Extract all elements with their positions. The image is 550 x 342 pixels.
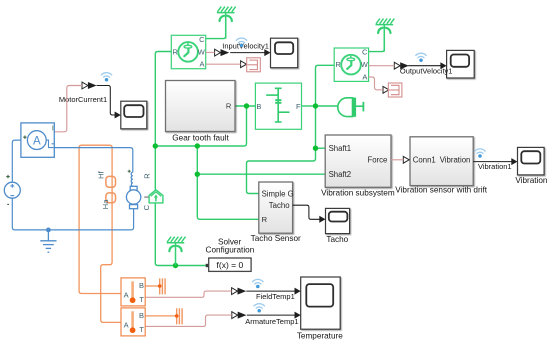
wire ammeter I to MotorCurrent1 — [54, 86, 82, 132]
svg-text:FieldTemp1: FieldTemp1 — [256, 292, 295, 301]
svg-text:Vibration sensor with drift: Vibration sensor with drift — [395, 186, 487, 195]
svg-text:f(x) = 0: f(x) = 0 — [217, 260, 244, 270]
subsystem block Vibration sensor with drift — [410, 137, 473, 186]
scope OutputVelocity — [447, 50, 475, 78]
svg-text:R: R — [335, 60, 341, 69]
junction node C — [313, 146, 318, 151]
junction node A — [244, 103, 249, 108]
svg-text:Shaft1: Shaft1 — [329, 144, 352, 153]
svg-text:Temperature: Temperature — [297, 331, 343, 340]
junction node ground blue — [46, 228, 51, 233]
rotational motion sensor 1 (input) — [171, 35, 206, 69]
junction node G — [173, 263, 178, 268]
svg-text:R: R — [173, 47, 179, 56]
wire thermo1 T to FieldTemp1 — [145, 291, 231, 297]
svg-text:W: W — [361, 60, 369, 69]
temperature sensor block field — [121, 278, 145, 306]
wireless logging icon ArmatureTemp1 — [254, 304, 264, 313]
wire sensor2 A to converter2 — [369, 77, 383, 90]
wire ammeter minus to motor plus — [54, 148, 133, 173]
arrowhead into MotorCurrent scope — [115, 112, 121, 119]
DC motor — [126, 172, 140, 208]
svg-text:Tacho: Tacho — [326, 235, 348, 244]
wire house C down to solver node — [155, 203, 206, 266]
svg-text:A: A — [124, 320, 129, 329]
source plus terminal mark — [6, 175, 9, 178]
wire thermo2 T to ArmatureTemp1 — [145, 315, 232, 326]
wire FieldTemp1 to scope — [246, 290, 295, 292]
scope Temperature — [301, 277, 341, 329]
svg-text:R: R — [226, 102, 232, 111]
svg-text:A: A — [33, 135, 41, 147]
svg-text:T: T — [139, 295, 144, 304]
wire sensor1 W out — [206, 51, 215, 53]
svg-text:R: R — [143, 173, 152, 179]
wire vertical x197 to tacho R — [197, 146, 258, 219]
wire ArmatureTemp1 to scope — [247, 314, 295, 316]
wire ground1 to sensor1 C — [206, 13, 226, 39]
DC voltage source — [4, 182, 20, 198]
wire shaft2 — [197, 173, 325, 175]
wire gearbox F to junction — [302, 105, 316, 107]
svg-text:InputVelocity1: InputVelocity1 — [222, 41, 269, 50]
svg-text:F: F — [296, 102, 301, 111]
wire shaft1 — [316, 147, 326, 149]
ammeter current sensor — [21, 123, 54, 157]
junction node E — [195, 143, 200, 148]
svg-text:Force: Force — [367, 156, 387, 165]
arrowhead into InputVelocity scope — [264, 49, 270, 56]
svg-text:R: R — [262, 215, 268, 224]
wireless logging icon MotorCurrent1 — [101, 73, 111, 82]
wire thermo1 B to thermal ref1 — [145, 285, 160, 287]
wire sensor1 R to vertical bus — [155, 52, 171, 190]
svg-text:C: C — [142, 204, 151, 210]
svg-text:T: T — [139, 325, 144, 334]
svg-text:Simple G: Simple G — [262, 189, 294, 198]
wire MotorCurrent1 to scope — [97, 86, 115, 116]
svg-text:Gear tooth fault: Gear tooth fault — [172, 133, 229, 142]
wire gear R to gearbox B — [235, 105, 255, 107]
svg-text:Shaft2: Shaft2 — [329, 170, 352, 179]
wire sensor2 W out — [369, 65, 395, 67]
svg-text:B: B — [139, 281, 144, 290]
wireless logging icon InputVelocity1 — [236, 38, 246, 47]
svg-text:MotorCurrent1: MotorCurrent1 — [59, 95, 107, 104]
wire thermal field loop — [79, 145, 121, 322]
temperature sensor block armature — [121, 308, 145, 336]
svg-text:OutputVelocity1: OutputVelocity1 — [400, 67, 453, 76]
arrowhead into Temperature scope in2 — [295, 312, 301, 319]
ammeter plus mark — [23, 136, 26, 139]
signal source arrows ArmatureTemp1 — [232, 312, 247, 319]
scope Tacho — [326, 208, 350, 233]
svg-text:Conn1: Conn1 — [413, 156, 436, 165]
junction node B — [313, 103, 318, 108]
wire ammeter plus to source — [12, 140, 21, 182]
svg-text:ArmatureTemp1: ArmatureTemp1 — [245, 317, 298, 326]
signal source arrows FieldTemp1 — [232, 288, 247, 295]
svg-text:W: W — [198, 48, 206, 57]
PS-Simulink converter 2 — [388, 83, 402, 97]
gearbox block — [255, 83, 301, 129]
wire junction to inertia — [316, 105, 339, 107]
signal source arrows OutputVelocity1 — [394, 62, 409, 69]
wire source minus to bottom bus — [12, 198, 133, 230]
mechanical rotational reference bottom — [167, 237, 186, 266]
port triangle converter2 input — [383, 86, 389, 93]
signal source arrows MotorCurrent1 — [82, 82, 97, 89]
motor R stub — [144, 196, 148, 198]
wire Force to Conn1 — [391, 159, 403, 161]
svg-text:A: A — [124, 290, 129, 299]
wire OutputVelocity1 to scope — [408, 65, 441, 67]
arrowhead into Temperature scope in1 — [295, 288, 301, 295]
source minus terminal mark — [7, 203, 9, 205]
wire Tacho to scope — [293, 205, 320, 219]
svg-text:Tacho Sensor: Tacho Sensor — [251, 234, 301, 243]
port triangle force input — [403, 156, 409, 163]
wire junction down left bus — [155, 106, 246, 146]
svg-text:Vibration: Vibration — [440, 156, 471, 165]
arrowhead into OutputVelocity scope — [440, 62, 446, 69]
svg-text:Hf: Hf — [96, 170, 105, 178]
wire thermo2 B to thermal ref2 — [145, 315, 177, 317]
friction housing element — [149, 190, 163, 203]
electrical ground — [40, 230, 56, 252]
ammeter minus port — [52, 143, 54, 145]
signal source arrows InputVelocity1 — [215, 49, 230, 56]
wire ground2 to sensor2 C — [369, 25, 385, 52]
subsystem block Vibration subsystem — [325, 135, 391, 187]
svg-text:A: A — [199, 60, 204, 69]
thermal port loop Ha — [106, 193, 116, 203]
svg-text:Tacho: Tacho — [269, 201, 290, 210]
wire sensor2 R down bus — [247, 65, 335, 193]
port triangle converter1 input — [241, 61, 247, 68]
scope MotorCurrent — [121, 101, 147, 129]
mechanical rotational reference top right — [376, 19, 395, 52]
rotational motion sensor 2 (output) — [334, 48, 369, 82]
arrowhead into Tacho scope — [319, 216, 325, 223]
mechanical rotational reference top middle — [217, 7, 236, 39]
thermal reference 1 — [158, 278, 165, 294]
wire Vibration1 to scope — [473, 161, 512, 163]
motor plus mark — [128, 170, 131, 173]
junction node D — [153, 143, 158, 148]
wire InputVelocity1 to scope — [230, 52, 265, 54]
svg-text:C: C — [362, 48, 368, 57]
junction node F — [195, 172, 200, 177]
svg-text:I: I — [52, 125, 54, 132]
svg-text:Vibration: Vibration — [515, 176, 548, 185]
scope InputVelocity — [271, 38, 298, 67]
svg-text:Ha: Ha — [101, 199, 110, 209]
subsystem block Gear tooth fault — [166, 81, 236, 132]
thermal port loop Hf — [106, 176, 116, 187]
svg-text:Vibration subsystem: Vibration subsystem — [321, 189, 395, 198]
svg-text:C: C — [199, 35, 205, 44]
svg-text:Vibration1: Vibration1 — [478, 162, 512, 171]
wire sensor1 A to converter1 — [206, 63, 241, 65]
svg-text:B: B — [256, 102, 261, 111]
wireless logging icon FieldTemp1 — [253, 279, 263, 288]
subsystem block Tacho Sensor — [259, 182, 293, 233]
svg-text:Configuration: Configuration — [206, 246, 255, 255]
wireless logging icon OutputVelocity1 — [416, 53, 426, 62]
wireless logging icon Vibration1 — [475, 149, 485, 158]
thermal reference 2 — [175, 308, 182, 324]
inertia block — [338, 98, 364, 117]
scope Vibration — [518, 147, 545, 175]
svg-text:B: B — [139, 311, 144, 320]
svg-text:A: A — [362, 72, 367, 81]
arrowhead into Vibration scope — [511, 158, 517, 165]
solver configuration block f(x)=0 — [206, 258, 251, 271]
PS-Simulink converter 1 — [247, 58, 261, 72]
